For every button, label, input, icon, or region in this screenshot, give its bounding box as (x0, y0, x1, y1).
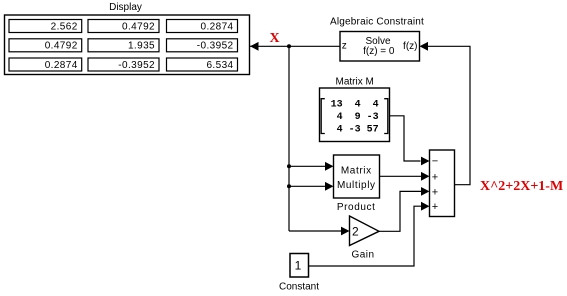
svg-text:Multiply: Multiply (337, 180, 376, 191)
wire sum output to Algebraic Constraint f(z) input (420, 42, 471, 185)
display cell r3c1 value 0.2874 (9, 58, 82, 71)
svg-text:Algebraic Constraint: Algebraic Constraint (330, 17, 424, 28)
wire X vertical trunk (288, 46, 290, 231)
svg-text:-0.3952: -0.3952 (197, 41, 234, 52)
wire z output of Algebraic Constraint to Display (250, 42, 340, 51)
svg-text:Product: Product (337, 202, 376, 213)
block Matrix M constant (320, 88, 390, 142)
wire product output to sum plus input 2 (380, 172, 430, 181)
wire constant output to sum plus input 4 (309, 202, 430, 266)
label Algebraic Constraint (330, 17, 424, 28)
wire Matrix M output to sum minus input (390, 116, 430, 166)
wire X to product input 1 (289, 162, 334, 171)
matrix left bracket (321, 99, 325, 134)
wire X to product input 2 (289, 182, 334, 191)
matrix values row 1: 13 4 4 (331, 100, 379, 111)
matrix values row 2: 4 9 -3 (331, 112, 379, 123)
label Gain (351, 250, 374, 261)
label Matrix M (336, 76, 374, 87)
label Display (109, 2, 142, 13)
svg-text:Display: Display (109, 2, 142, 13)
svg-text:0.2874: 0.2874 (201, 21, 234, 32)
sum block (430, 150, 455, 217)
block Constant value 1 (290, 254, 309, 278)
display cell r3c2 value -0.3952 (88, 58, 159, 71)
svg-text:+: + (432, 186, 438, 198)
svg-text:f(z) = 0: f(z) = 0 (363, 46, 395, 57)
node junction X on wire (287, 44, 291, 48)
svg-text:-0.3952: -0.3952 (118, 60, 155, 71)
display cell r2c2 value 1.935 (88, 39, 159, 52)
svg-text:Constant: Constant (279, 282, 319, 293)
wire X to gain input (289, 227, 350, 236)
svg-text:Matrix M: Matrix M (336, 76, 374, 87)
svg-text:f(z): f(z) (403, 41, 417, 52)
svg-text:z: z (342, 40, 347, 51)
svg-text:2.562: 2.562 (51, 21, 78, 32)
node junction to product input 1 (287, 164, 291, 168)
svg-text:0.4792: 0.4792 (45, 41, 78, 52)
display cell r1c3 value 0.2874 (167, 20, 238, 33)
display cell r1c1 value 2.562 (9, 20, 82, 33)
svg-text:13 4 4: 13 4 4 (331, 100, 379, 111)
matrix values row 3: 4 -3 57 (331, 125, 379, 136)
block U1 Algebraic Constraint (340, 32, 420, 62)
svg-text:0.2874: 0.2874 (45, 60, 78, 71)
svg-text:+: + (432, 171, 438, 183)
svg-text:Matrix: Matrix (341, 165, 372, 176)
matrix right bracket (384, 99, 388, 134)
display cell r1c2 value 0.4792 (88, 20, 159, 33)
svg-text:0.4792: 0.4792 (122, 21, 155, 32)
svg-text:X^2+2X+1-M: X^2+2X+1-M (480, 179, 563, 194)
svg-text:4 -3 57: 4 -3 57 (331, 125, 379, 136)
gain block triangle (350, 216, 380, 246)
svg-text:−: − (432, 156, 438, 168)
node X annotation (red) (270, 31, 280, 46)
svg-text:1.935: 1.935 (128, 41, 155, 52)
display cell r3c3 value 6.534 (167, 58, 238, 71)
node junction to product input 2 (287, 184, 291, 188)
display cell r2c3 value -0.3952 (167, 39, 238, 52)
svg-text:Gain: Gain (351, 250, 374, 261)
svg-text:+: + (432, 201, 438, 213)
svg-text:6.534: 6.534 (206, 60, 233, 71)
wire gain output to sum plus input 3 (379, 187, 430, 231)
display cell r2c1 value 0.4792 (9, 39, 82, 52)
block Product (Matrix Multiply) (334, 155, 380, 198)
display block Display (5, 15, 250, 75)
svg-text:1: 1 (295, 258, 302, 272)
svg-text:4 9 -3: 4 9 -3 (331, 112, 379, 123)
svg-text:X: X (270, 31, 280, 46)
annotation X^2+2X+1-M (red) (480, 179, 563, 194)
label Constant (279, 282, 319, 293)
label Product (337, 202, 376, 213)
svg-text:2: 2 (352, 224, 359, 238)
